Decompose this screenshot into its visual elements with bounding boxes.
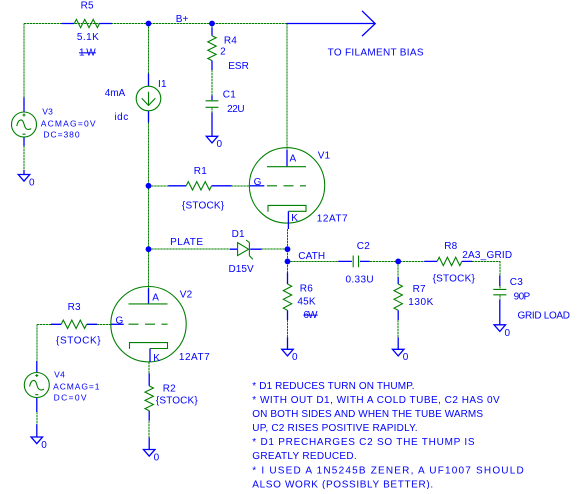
- wire V1 cathode vertical: [287, 229, 289, 273]
- capacitor C1: [206, 90, 245, 137]
- ground below R7: [392, 337, 408, 363]
- wire top bus B+: [24, 23, 287, 25]
- resistor R7: [394, 277, 434, 320]
- junction dot R1 branch: [146, 183, 152, 189]
- wire V1 anode vertical: [286, 24, 288, 150]
- svg-text:0.33U: 0.33U: [346, 275, 374, 286]
- svg-text:C1: C1: [223, 90, 236, 101]
- svg-text:R3: R3: [68, 302, 81, 313]
- svg-text:{STOCK}: {STOCK}: [182, 200, 225, 211]
- svg-text:GREATLY REDUCED.: GREATLY REDUCED.: [252, 451, 356, 462]
- wire R3 corner down to V4: [36, 324, 38, 361]
- svg-text:0: 0: [292, 352, 298, 363]
- ground below R2: [143, 438, 159, 464]
- svg-text:4mA: 4mA: [105, 88, 126, 99]
- wire left vertical to V3: [23, 24, 25, 98]
- svg-text:ALSO WORK (POSSIBLY BETTER).: ALSO WORK (POSSIBLY BETTER).: [252, 479, 433, 489]
- svg-text:1 W: 1 W: [79, 48, 96, 59]
- svg-text:GRID LOAD: GRID LOAD: [518, 311, 571, 322]
- capacitor C2: [338, 241, 374, 286]
- wire R3 left horizontal: [37, 323, 51, 325]
- notes text block: [252, 381, 524, 490]
- resistor R8: [424, 241, 475, 284]
- junction dot top R4: [209, 21, 215, 27]
- junction dot D1 cathode: [285, 246, 291, 252]
- wire V3 below: [23, 146, 25, 170]
- svg-text:V2: V2: [180, 290, 193, 301]
- svg-text:ON BOTH SIDES AND WHEN THE TUB: ON BOTH SIDES AND WHEN THE TUBE WARMS: [252, 409, 483, 420]
- svg-text:* D1 PRECHARGES C2 SO THE THUM: * D1 PRECHARGES C2 SO THE THUMP IS: [252, 437, 475, 448]
- wire C1 stub bottom: [211, 108, 213, 113]
- wire R7 to ground: [397, 320, 399, 337]
- resistor R1: [168, 166, 231, 212]
- svg-text:* I USED A 1N5245B ZENER, A UF: * I USED A 1N5245B ZENER, A UF1007 SHOUL…: [252, 465, 524, 476]
- svg-text:D15V: D15V: [229, 264, 255, 275]
- svg-text:{STOCK}: {STOCK}: [433, 274, 476, 285]
- svg-text:* WITH OUT D1, WITH A COLD TUB: * WITH OUT D1, WITH A COLD TUBE, C2 HAS …: [252, 395, 500, 406]
- svg-text:R8: R8: [444, 241, 457, 252]
- wire V4 below: [36, 412, 38, 424]
- capacitor C3: [493, 275, 570, 325]
- junction dot CATH node: [285, 259, 291, 265]
- junction dot top I1: [146, 21, 152, 27]
- svg-text:90P: 90P: [514, 291, 531, 302]
- svg-text:12AT7: 12AT7: [317, 214, 348, 225]
- wire V2 cathode to R2: [148, 362, 150, 373]
- wire R4 to C1: [211, 70, 213, 96]
- wire R7 branch top: [397, 261, 399, 277]
- wire R8 right corner down to C3: [472, 261, 500, 275]
- svg-text:UP, C2 RISES POSITIVE RAPIDLY.: UP, C2 RISES POSITIVE RAPIDLY.: [252, 423, 417, 434]
- voltage source V4: [24, 361, 99, 412]
- resistor R3: [51, 302, 101, 347]
- wire C2 to R7 node: [370, 260, 424, 262]
- wire R1 right to V1 grid: [232, 185, 250, 187]
- svg-text:ACMAG=1: ACMAG=1: [53, 381, 100, 391]
- svg-text:PLATE: PLATE: [170, 237, 203, 248]
- wire R3 right to V2 grid: [97, 323, 111, 325]
- triode V2: [111, 287, 210, 364]
- svg-text:K: K: [153, 353, 160, 364]
- svg-text:DC=380: DC=380: [43, 130, 79, 140]
- svg-text:A: A: [152, 292, 159, 303]
- svg-text:0: 0: [217, 139, 223, 150]
- svg-text:DC=0V: DC=0V: [54, 392, 87, 402]
- ground below C1: [206, 136, 222, 150]
- svg-text:0: 0: [403, 352, 409, 363]
- junction dot plate corner: [146, 246, 152, 252]
- svg-text:{STOCK}: {STOCK}: [156, 396, 198, 407]
- wire I1 branch vertical: [148, 24, 150, 74]
- svg-text:5.1K: 5.1K: [77, 32, 99, 43]
- svg-text:K: K: [291, 213, 298, 224]
- svg-text:0: 0: [29, 178, 35, 189]
- resistor R5: [62, 0, 112, 58]
- svg-text:22U: 22U: [227, 104, 245, 115]
- svg-text:* D1 REDUCES TURN ON THUMP.: * D1 REDUCES TURN ON THUMP.: [252, 381, 414, 392]
- svg-text:0: 0: [154, 452, 160, 463]
- svg-text:R6: R6: [300, 284, 313, 295]
- wire R6 to ground: [287, 320, 289, 337]
- svg-text:C3: C3: [510, 277, 523, 288]
- wire R1 left: [149, 185, 169, 187]
- svg-text:CATH: CATH: [298, 251, 325, 262]
- svg-text:0: 0: [505, 328, 511, 339]
- svg-text:R1: R1: [194, 166, 207, 177]
- current source I1: [105, 74, 167, 124]
- resistor R6: [283, 273, 318, 321]
- svg-text:B+: B+: [176, 14, 189, 25]
- ground below C3: [494, 325, 510, 339]
- svg-text:{STOCK}: {STOCK}: [56, 336, 101, 347]
- wire C3 stub bottom: [499, 295, 501, 299]
- svg-text:C2: C2: [357, 241, 370, 252]
- resistor R4: [208, 28, 249, 73]
- svg-text:A: A: [290, 153, 297, 164]
- svg-text:0: 0: [41, 440, 47, 451]
- svg-text:ESR: ESR: [228, 61, 249, 72]
- svg-text:V1: V1: [318, 150, 331, 161]
- wire R2 to ground: [148, 421, 150, 438]
- svg-text:TO FILAMENT BIAS: TO FILAMENT BIAS: [328, 48, 424, 59]
- ground below R6: [282, 337, 298, 363]
- triode V1: [249, 148, 348, 229]
- svg-text:V3: V3: [42, 107, 53, 117]
- off-page arrow TO FILAMENT BIAS: [287, 11, 424, 59]
- diode D1 zener: [229, 229, 262, 275]
- svg-text:G: G: [254, 177, 262, 188]
- ground below V3: [18, 170, 35, 189]
- svg-text:I1: I1: [158, 79, 167, 90]
- svg-text:45K: 45K: [297, 297, 315, 308]
- wire R4 branch stub: [211, 24, 213, 28]
- wire CATH horizontal: [288, 260, 339, 262]
- svg-text:D1: D1: [232, 229, 245, 240]
- svg-text:idc: idc: [115, 112, 129, 123]
- wire D1 to cath node: [262, 248, 288, 250]
- junction dot C2/R7 node: [395, 259, 401, 265]
- wire PLATE left: [149, 248, 230, 250]
- svg-text:V4: V4: [54, 370, 65, 380]
- svg-text:2: 2: [220, 47, 226, 58]
- svg-text:6W: 6W: [303, 310, 318, 321]
- svg-text:2A3_GRID: 2A3_GRID: [462, 250, 512, 261]
- svg-text:R2: R2: [163, 384, 176, 395]
- wire I1 to plate net vertical: [148, 123, 150, 289]
- svg-text:130K: 130K: [408, 297, 433, 308]
- ground below V4: [31, 424, 47, 451]
- voltage source V3: [12, 98, 96, 147]
- svg-text:12AT7: 12AT7: [179, 352, 210, 363]
- svg-text:R4: R4: [224, 35, 237, 46]
- svg-text:R5: R5: [81, 0, 94, 11]
- resistor R2: [145, 373, 198, 421]
- svg-text:G: G: [116, 315, 124, 326]
- wire C3 stub top: [499, 286, 501, 289]
- svg-text:R7: R7: [413, 284, 426, 295]
- svg-text:ACMAG=0V: ACMAG=0V: [41, 118, 96, 128]
